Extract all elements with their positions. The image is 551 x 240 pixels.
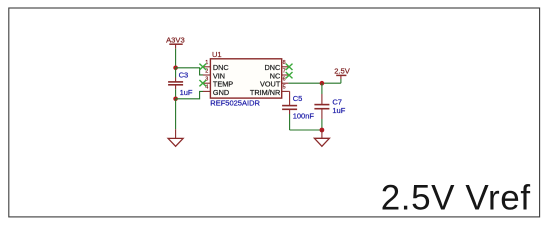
junction at C3 bottom / GND pin node	[173, 97, 178, 102]
pin 7 stub	[282, 74, 289, 76]
wire VOUT to 2.5V	[288, 82, 341, 84]
wire pin 5 to C5	[288, 90, 289, 92]
svg-text:3: 3	[205, 77, 208, 83]
ground (right)	[314, 130, 329, 146]
ground (left)	[168, 129, 183, 146]
svg-text:2.5V Vref: 2.5V Vref	[381, 179, 531, 218]
svg-text:7: 7	[283, 68, 286, 74]
svg-text:GND: GND	[213, 88, 229, 97]
svg-text:U1: U1	[212, 50, 222, 59]
svg-text:C3: C3	[179, 71, 189, 80]
wire to pin 2 VIN	[176, 68, 204, 75]
no-connect X pin 7	[286, 72, 293, 78]
wire A3V3 vertical	[175, 49, 177, 68]
IC U1 REF5025AIDR body	[210, 59, 281, 98]
pin 6 stub	[282, 82, 289, 84]
svg-text:8: 8	[283, 60, 286, 66]
svg-text:6: 6	[283, 77, 286, 83]
pin 4 stub	[203, 90, 211, 92]
svg-text:TRIM/NR: TRIM/NR	[250, 88, 280, 97]
svg-text:REF5025AIDR: REF5025AIDR	[210, 99, 260, 108]
capacitor C5	[282, 91, 297, 130]
wire to left ground	[175, 99, 177, 129]
svg-text:100nF: 100nF	[293, 112, 315, 121]
svg-text:C5: C5	[293, 94, 303, 103]
svg-text:1: 1	[205, 60, 208, 66]
no-connect X pin 3	[199, 80, 206, 86]
svg-text:A3V3: A3V3	[166, 35, 185, 44]
svg-text:2.5V: 2.5V	[334, 67, 351, 76]
pin 3 stub	[203, 82, 211, 84]
capacitor C3	[168, 68, 183, 99]
capacitor C7	[314, 83, 329, 130]
svg-text:1uF: 1uF	[180, 88, 193, 97]
no-connect X pin 1	[199, 64, 206, 70]
power port 2.5V	[334, 67, 351, 84]
pin 8 stub	[282, 66, 289, 68]
junction at A3V3/C3/VIN node	[173, 66, 178, 71]
no-connect X pin 8	[286, 64, 293, 70]
wire C5 bottom rail	[290, 129, 322, 131]
junction at VOUT/C7 node	[320, 81, 325, 86]
power port A3V3	[166, 35, 185, 48]
svg-text:5: 5	[283, 85, 286, 91]
junction at C7 bottom / ground node	[320, 128, 325, 133]
pin 2 stub	[203, 74, 211, 76]
wire to pin 4 GND	[176, 91, 204, 98]
svg-text:1uF: 1uF	[332, 106, 345, 115]
pin 5 stub	[282, 90, 289, 92]
pin 1 stub	[203, 66, 211, 68]
